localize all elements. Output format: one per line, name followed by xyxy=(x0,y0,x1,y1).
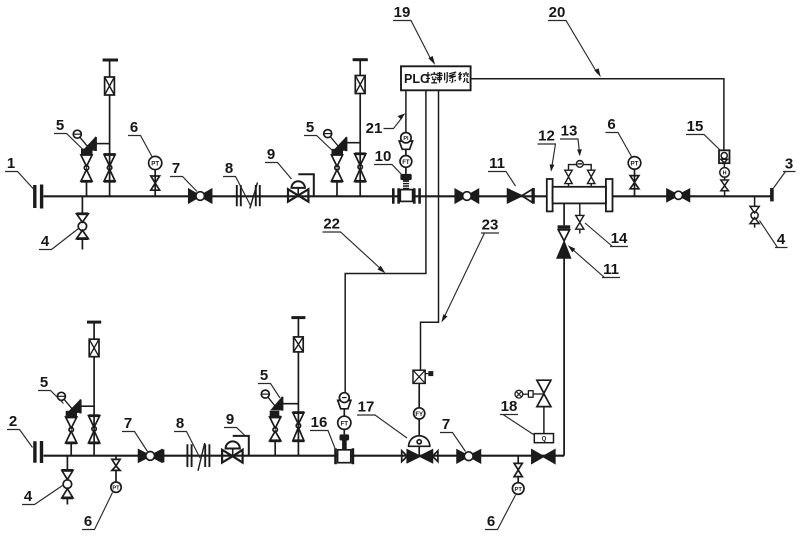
bottom pipe xyxy=(44,455,565,457)
svg-text:13: 13 xyxy=(561,123,578,140)
label 2 xyxy=(7,413,33,448)
svg-text:5: 5 xyxy=(260,367,268,384)
glyph zhi xyxy=(437,72,447,83)
label 7 top-left xyxy=(170,160,197,192)
label 6 right xyxy=(606,116,632,157)
control valve 9a xyxy=(288,174,314,202)
check valve 11b on riser xyxy=(557,203,570,455)
signal wire 22 xyxy=(345,90,426,393)
vent stack C (bottom-left) xyxy=(87,322,101,456)
svg-text:6: 6 xyxy=(84,513,92,530)
svg-text:20: 20 xyxy=(549,4,566,21)
label 16 xyxy=(310,414,337,454)
svg-text:PT: PT xyxy=(151,160,159,167)
svg-text:Q: Q xyxy=(542,437,547,443)
svg-text:10: 10 xyxy=(375,148,392,165)
pressure gauge 6d (PT) xyxy=(512,456,524,495)
insulating joint 8a xyxy=(237,183,260,209)
valve 7e xyxy=(457,450,480,463)
label 20 xyxy=(548,4,601,77)
control valve 17 xyxy=(402,370,438,462)
label 12 xyxy=(538,128,556,172)
svg-text:11: 11 xyxy=(489,155,505,172)
relief valve 5d xyxy=(261,390,298,456)
analyzer 15 xyxy=(719,150,730,196)
svg-text:23: 23 xyxy=(482,217,499,234)
vent stack D (bottom-middle) xyxy=(291,318,305,456)
svg-text:7: 7 xyxy=(172,160,180,177)
label 5 top-left xyxy=(54,117,84,151)
pressure gauge 6a (PT) xyxy=(149,156,162,196)
svg-text:7: 7 xyxy=(442,416,450,433)
svg-text:9: 9 xyxy=(226,411,234,428)
label 1 xyxy=(5,155,34,189)
svg-text:5: 5 xyxy=(56,117,64,134)
transmitter 21 xyxy=(399,141,412,149)
label 11 top xyxy=(488,155,516,186)
svg-text:17: 17 xyxy=(358,399,375,416)
glyph kong xyxy=(426,72,437,83)
label 7 bottom-left xyxy=(122,415,148,452)
label 15 xyxy=(686,118,721,151)
label 9 top xyxy=(265,146,292,179)
label 5 bottom-middle xyxy=(258,367,280,398)
pressure gauge 6b (PT) xyxy=(628,157,641,197)
valve 7c xyxy=(667,189,689,201)
vent stack B (top-middle) xyxy=(353,60,368,197)
label 4 top-left xyxy=(39,229,79,251)
vent stack A (top-left) xyxy=(103,60,118,196)
relief valve 5c xyxy=(57,392,94,455)
svg-text:4: 4 xyxy=(24,488,33,505)
regulator valve 18 xyxy=(515,380,555,463)
signal wire 23 xyxy=(421,90,439,370)
svg-text:1: 1 xyxy=(7,155,15,172)
svg-text:FY: FY xyxy=(415,412,423,418)
separator vessel 12 xyxy=(547,179,613,211)
label 21 xyxy=(366,113,406,137)
svg-text:5: 5 xyxy=(306,119,314,136)
svg-text:11: 11 xyxy=(603,261,619,278)
svg-text:6: 6 xyxy=(607,116,615,133)
label 6 bottom-right xyxy=(485,495,516,530)
label 8 bottom xyxy=(174,415,200,458)
svg-text:4: 4 xyxy=(41,233,50,250)
flange 1 xyxy=(35,185,42,209)
label 4 bottom-left xyxy=(22,486,63,506)
label 23 xyxy=(441,217,499,323)
svg-text:PT: PT xyxy=(112,486,120,492)
svg-text:PT: PT xyxy=(514,487,522,493)
svg-text:H: H xyxy=(723,171,727,177)
svg-text:5: 5 xyxy=(40,374,48,391)
PLC control box xyxy=(401,66,471,90)
svg-text:9: 9 xyxy=(267,146,275,163)
label 8 top xyxy=(223,160,251,207)
label 22 xyxy=(323,216,386,274)
svg-text:2: 2 xyxy=(9,413,17,430)
label 14 xyxy=(585,223,628,247)
relief valve 5a xyxy=(73,130,109,196)
svg-text:6: 6 xyxy=(487,513,495,530)
drain valve 14 xyxy=(576,203,584,233)
flange 2 xyxy=(35,441,42,463)
label 13 xyxy=(560,123,582,157)
label 10 xyxy=(374,148,402,175)
glyph tong xyxy=(459,72,469,82)
svg-text:21: 21 xyxy=(366,120,383,137)
svg-text:18: 18 xyxy=(501,398,518,415)
svg-text:16: 16 xyxy=(311,414,328,431)
label 11 riser xyxy=(568,245,620,278)
valve 7b xyxy=(455,190,478,203)
glyph xi xyxy=(449,72,457,83)
svg-text:8: 8 xyxy=(225,160,233,177)
label 17 xyxy=(357,399,407,439)
signal wire to 21 xyxy=(405,90,407,132)
svg-text:PI: PI xyxy=(403,136,409,142)
valve 4a xyxy=(77,196,89,249)
svg-text:3: 3 xyxy=(785,156,793,173)
label 6 top-left xyxy=(128,119,153,158)
insulating joint 8b xyxy=(187,443,209,471)
svg-text:6: 6 xyxy=(130,119,138,136)
valve 4b xyxy=(750,196,759,227)
svg-text:PT: PT xyxy=(631,160,639,167)
gauge manifold 13 xyxy=(565,161,595,187)
svg-text:4: 4 xyxy=(777,231,786,248)
check valve 11a xyxy=(508,188,534,204)
turbine flow meter 10 xyxy=(393,133,419,204)
label 4 right xyxy=(760,221,788,249)
pressure gauge 6c (PT) xyxy=(111,456,121,493)
label 7 bottom-right xyxy=(440,416,466,452)
svg-text:8: 8 xyxy=(176,415,184,432)
svg-text:12: 12 xyxy=(538,128,555,145)
svg-text:14: 14 xyxy=(611,230,628,247)
signal wire 20 xyxy=(471,79,724,151)
valve 7d xyxy=(139,449,164,462)
valve 7a xyxy=(189,189,212,202)
svg-text:PLC: PLC xyxy=(404,72,429,86)
svg-text:FT: FT xyxy=(341,420,349,427)
svg-text:FT: FT xyxy=(402,160,410,166)
label 19 xyxy=(393,4,435,65)
svg-text:22: 22 xyxy=(323,216,340,233)
flange 3 xyxy=(770,188,774,202)
relief valve 5b xyxy=(324,130,361,197)
svg-text:7: 7 xyxy=(124,415,132,432)
svg-text:15: 15 xyxy=(687,118,704,135)
svg-text:19: 19 xyxy=(394,4,411,21)
label 9 bottom xyxy=(224,411,246,437)
label 3 xyxy=(774,156,796,189)
control valve 9b xyxy=(222,436,249,463)
top pipe xyxy=(44,195,772,197)
PLC text xyxy=(404,72,469,86)
valve 4c xyxy=(62,456,73,505)
label 5 bottom-left xyxy=(38,374,64,404)
flow meter 16 xyxy=(336,393,353,465)
label 5 top-middle xyxy=(304,119,335,153)
label 6 bottom-left xyxy=(82,493,113,531)
label 18 xyxy=(500,398,534,435)
